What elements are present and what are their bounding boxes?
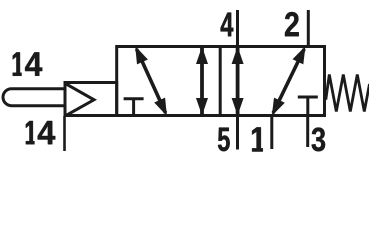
port 3 stub <box>306 116 309 148</box>
return spring <box>326 75 369 112</box>
blocked port T left square <box>132 99 135 116</box>
flow arrow 2-3 left square (vertical, double headed) <box>200 48 204 114</box>
arrowhead up-left, left diagonal <box>135 46 148 64</box>
arrowhead down-left, right diagonal <box>272 98 285 116</box>
divider between position squares <box>219 47 222 116</box>
pilot line down <box>63 116 66 151</box>
arrowhead down, right vertical arrow <box>232 98 244 116</box>
arrowhead up, left vertical arrow <box>196 47 208 65</box>
port 5 stub <box>236 116 239 150</box>
label 2top <box>285 12 299 36</box>
arrowhead up-right, right diagonal <box>293 46 306 64</box>
label 14b_1 <box>26 121 35 144</box>
label 3bot <box>312 128 326 152</box>
label 14t_1 <box>13 52 22 75</box>
plunger actuator stadium <box>3 89 65 106</box>
flow arrow 1-2 right square (diagonal) <box>273 49 304 113</box>
label 1bot <box>252 127 263 151</box>
label 14b_4 <box>38 121 56 144</box>
port 2 stub <box>307 10 310 47</box>
port 4 stub <box>236 10 239 47</box>
label 14t_4 <box>25 52 42 75</box>
arrowhead down, left vertical arrow <box>196 98 208 116</box>
arrowhead down-right, left diagonal <box>154 98 167 116</box>
port 1 stub <box>270 116 273 150</box>
pilot actuator box <box>65 83 117 116</box>
label 4top <box>221 13 234 37</box>
pneumatic pilot chevron <box>67 84 95 115</box>
arrowhead up, right vertical arrow <box>232 47 244 65</box>
flow arrow 1-4 left square (diagonal) <box>137 49 166 113</box>
valve body outline <box>117 47 325 116</box>
label 5bot <box>218 128 230 152</box>
blocked port T right square <box>306 97 309 116</box>
flow arrow 4-5 right square (vertical, double headed) <box>236 48 240 114</box>
